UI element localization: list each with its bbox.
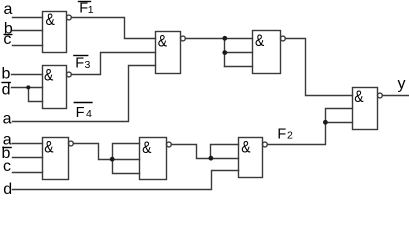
wire branch up to G6 input 1	[113, 144, 140, 160]
svg-text:&: &	[142, 139, 152, 158]
svg-text:2: 2	[287, 130, 293, 142]
wire input b (middle group)	[12, 74, 43, 76]
wire input a (top)	[13, 17, 43, 19]
wire input d to G7 input 3	[13, 171, 239, 190]
wire F2 from G7 up to G8 input 2	[268, 109, 353, 145]
svg-text:F: F	[75, 56, 84, 72]
svg-text:d: d	[3, 181, 12, 198]
wire input a (bottom)	[13, 143, 43, 145]
nand gate G5 (a-bar,b-bar,c)	[43, 138, 74, 180]
svg-text:&: &	[354, 88, 364, 107]
svg-text:&: &	[44, 66, 54, 85]
wire F3-bar from G2 to G3 input 2	[71, 53, 155, 75]
junction dot on d-bar wire	[26, 85, 30, 89]
wire input c (bottom)	[13, 172, 43, 174]
wire output y	[383, 95, 409, 97]
junction dot on G6 output	[209, 156, 214, 161]
nand gate G1 (a,b,c-bar -> F1-bar)	[43, 12, 72, 53]
label b-bar (bottom input)	[2, 145, 12, 162]
svg-text:a: a	[3, 110, 12, 127]
junction dot J2 on G4 input branch	[222, 50, 227, 55]
svg-text:a: a	[4, 1, 13, 18]
wire branch down to G6 input 3	[113, 160, 140, 174]
wire branch up to G7 input 1	[211, 145, 239, 159]
wire input b (top)	[13, 30, 43, 32]
label F2	[277, 126, 293, 142]
wire input c-bar (top)	[13, 45, 43, 47]
label F1-bar	[78, 1, 94, 17]
wire branch to G4 input 3	[225, 66, 253, 68]
svg-text:&: &	[46, 11, 56, 30]
nand gate G4 (inverter)	[253, 31, 286, 74]
svg-text:d: d	[2, 81, 11, 98]
svg-text:3: 3	[85, 59, 91, 71]
wire G5 output to G6 middle input	[73, 144, 139, 160]
svg-text:F: F	[277, 126, 286, 142]
wire G4 output down to G8 input 1	[286, 39, 353, 96]
label d-bar (middle input)	[1, 81, 11, 98]
wire F1-bar from G1 to G3 input 1	[72, 18, 156, 39]
wire input b-bar (bottom)	[13, 157, 43, 159]
svg-text:b: b	[2, 65, 11, 82]
svg-text:c: c	[3, 158, 11, 175]
wire branch F2 to G8 input 3	[326, 122, 353, 124]
label F4-bar	[74, 103, 93, 121]
svg-text:4: 4	[86, 108, 92, 120]
svg-text:F: F	[76, 105, 85, 121]
wire branch down from node J1	[224, 39, 226, 67]
svg-text:&: &	[255, 32, 265, 51]
label c-bar (top input)	[3, 31, 12, 48]
svg-text:c: c	[3, 31, 11, 48]
wire input d-bar (middle group)	[12, 87, 43, 89]
svg-text:&: &	[241, 138, 251, 157]
svg-text:&: &	[44, 138, 54, 157]
wire G3 output to G4 input 1	[186, 38, 253, 40]
nand gate G7 (output F2)	[239, 138, 268, 178]
junction dot on F2 wire	[323, 120, 328, 125]
junction dot on G5 output	[110, 157, 115, 162]
wire d-bar branch into G2 third input	[29, 88, 43, 102]
nand gate G2 (b,d-bar -> F3-bar)	[43, 66, 72, 109]
wire G6 output to G7 middle input	[171, 145, 238, 159]
wire input a = F4-bar to G3 input 3	[13, 66, 156, 122]
nand gate G8 (output y)	[353, 88, 383, 130]
svg-text:&: &	[158, 32, 168, 51]
label F3-bar	[73, 56, 90, 72]
svg-text:y: y	[398, 75, 406, 92]
nand gate G6 (inverter)	[140, 138, 172, 180]
nand gate G3 (F1-bar,F3-bar,F4-bar)	[156, 32, 186, 74]
wire branch to G4 input 2	[225, 52, 253, 54]
svg-text:1: 1	[88, 4, 94, 16]
junction dot J1 on G3 output	[222, 36, 227, 41]
